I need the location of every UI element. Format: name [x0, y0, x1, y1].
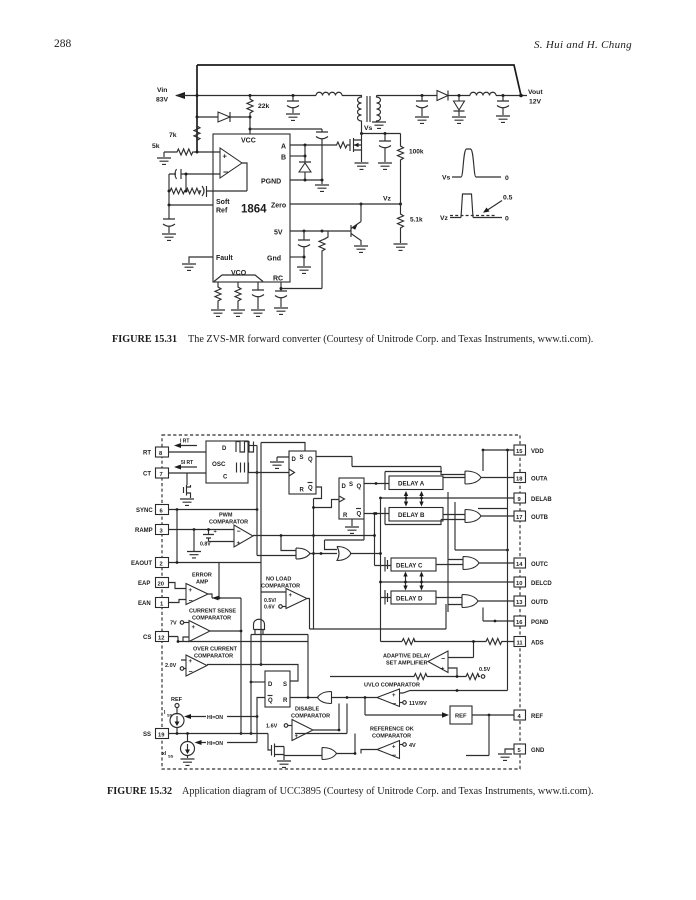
- AND gate mirrored on R row: [318, 692, 332, 704]
- wire op-amp output loop: [242, 163, 247, 191]
- wire HI=ON row 2: [198, 742, 258, 744]
- wire REF input with arrow: [365, 698, 445, 716]
- inductor L1 on input rail: [316, 92, 342, 95]
- svg-text:Fault: Fault: [216, 255, 233, 262]
- svg-text:10: 10: [516, 581, 522, 587]
- wire PGND row to ground: [290, 180, 322, 184]
- wire Vs node row: [362, 133, 401, 135]
- svg-text:D: D: [222, 446, 227, 452]
- inductor L2 output: [470, 92, 496, 95]
- svg-text:DELCD: DELCD: [531, 581, 552, 587]
- transistor Q1 PNP: [351, 204, 361, 245]
- svg-text:0: 0: [505, 175, 509, 182]
- OUTD driver gate: [462, 595, 478, 608]
- svg-text:19: 19: [158, 733, 165, 739]
- wire FF2 ground: [351, 519, 353, 526]
- svg-text:PGND: PGND: [261, 179, 281, 186]
- wire soft ref row: [169, 204, 213, 206]
- wire VDD row: [483, 449, 514, 451]
- pin DELAB box 9: [514, 493, 526, 503]
- svg-text:Q: Q: [357, 512, 362, 518]
- VCO timing network below IC: resistor: [215, 282, 221, 309]
- svg-text:S: S: [349, 482, 353, 488]
- op-amp error amplifier: [220, 148, 242, 178]
- svg-text:+: +: [392, 745, 396, 751]
- current source Iss: [170, 714, 184, 728]
- wire B pin stub: [290, 155, 305, 157]
- capacitor compensation on inverting input: [169, 169, 220, 179]
- wire zero row Vz: [290, 203, 401, 205]
- svg-text:CT: CT: [143, 472, 151, 478]
- delay block B: [389, 508, 443, 522]
- wire gnd pin row: [290, 256, 304, 258]
- pin DELCD box 10: [514, 577, 526, 587]
- wire vertical bus x313: [313, 499, 315, 630]
- svg-text:GND: GND: [531, 748, 545, 754]
- svg-text:Zero: Zero: [271, 203, 286, 210]
- svg-text:−: −: [223, 167, 228, 177]
- svg-text:DISABLE: DISABLE: [295, 707, 319, 713]
- wire FF2 Q to DELAY A: [364, 483, 389, 485]
- svg-text:22k: 22k: [258, 103, 270, 110]
- svg-text:Gnd: Gnd: [267, 256, 281, 263]
- wire EAP to + input: [169, 583, 187, 589]
- svg-text:REF: REF: [455, 714, 467, 720]
- svg-text:17: 17: [516, 515, 522, 521]
- svg-text:ERROR: ERROR: [192, 573, 212, 579]
- transistor CT discharge: [184, 485, 191, 498]
- pin VDD box 15: [514, 445, 526, 455]
- pin SYNC box 6: [156, 505, 169, 515]
- svg-text:AMP: AMP: [196, 580, 209, 586]
- wire 5V row: [290, 230, 351, 232]
- svg-text:D: D: [342, 484, 347, 490]
- flip-flop FF2: [339, 478, 364, 519]
- svg-text:REF: REF: [171, 697, 183, 703]
- svg-text:DELAY A: DELAY A: [398, 481, 425, 488]
- IC 1864 body: [213, 134, 290, 282]
- wire RC to resistor: [281, 252, 322, 289]
- wire DELAB row to pin 9: [381, 497, 515, 499]
- resistor 22k: [247, 96, 253, 135]
- ground at FF1 D input: [277, 457, 289, 461]
- svg-text:OVER CURRENT: OVER CURRENT: [193, 647, 238, 653]
- svg-text:+: +: [392, 693, 396, 699]
- pin SS box 19: [156, 729, 169, 739]
- wire top feedback loop: [197, 65, 521, 152]
- wire OC output to latch S: [207, 665, 298, 682]
- wire vertical mid: [261, 443, 305, 665]
- wire SYNC row: [169, 509, 258, 511]
- svg-text:Q: Q: [308, 457, 313, 463]
- wire big loop left vertical: [251, 635, 308, 734]
- wire PWM output to AND: [253, 536, 375, 551]
- svg-text:13: 13: [516, 600, 523, 606]
- wire vertical bus right: [447, 492, 449, 612]
- svg-text:Vout: Vout: [528, 89, 543, 96]
- svg-text:SYNC: SYNC: [136, 508, 153, 514]
- pin CS box 12: [156, 632, 169, 642]
- svg-text:EAP: EAP: [138, 581, 150, 587]
- wire FF2 clock feed: [314, 500, 340, 508]
- pin OUTC box 14: [514, 558, 526, 568]
- svg-text:RC: RC: [273, 276, 283, 283]
- wire OSC C output to FF1 clock: [248, 472, 289, 474]
- wire REF down to refok row: [466, 715, 489, 756]
- svg-text:Vs: Vs: [364, 125, 373, 132]
- svg-text:A: A: [281, 144, 286, 151]
- wire bottom gate connections: [284, 734, 377, 756]
- wire FF1 R stub: [314, 487, 322, 499]
- wire vertical bus right 2: [455, 502, 508, 550]
- wire EAOUT row: [169, 562, 262, 564]
- svg-text:0.5V: 0.5V: [479, 667, 491, 673]
- svg-text:OUTC: OUTC: [531, 562, 549, 568]
- wire SS row: [169, 729, 269, 734]
- IC boundary dashed box: [162, 435, 520, 769]
- svg-text:COMPARATOR: COMPARATOR: [372, 734, 411, 740]
- svg-text:D: D: [268, 682, 273, 688]
- wire fault to ground: [189, 257, 213, 263]
- resistor: [235, 282, 241, 309]
- svg-text:Vz: Vz: [440, 215, 449, 222]
- ground: [163, 152, 165, 157]
- svg-text:14: 14: [516, 562, 523, 568]
- wire left vertical: [168, 174, 170, 205]
- resistor 100k / 5.1k chain: [398, 134, 404, 244]
- svg-text:VCO: VCO: [231, 270, 247, 277]
- pin RT box 8: [156, 447, 169, 457]
- wire VDD drop to OUTA driver: [482, 450, 484, 471]
- svg-text:0.8V: 0.8V: [200, 542, 211, 548]
- OUTC driver gate: [463, 557, 479, 570]
- transformer T1 secondary: [377, 96, 381, 123]
- svg-text:15: 15: [516, 449, 523, 455]
- wire CS comp output: [210, 630, 241, 632]
- wire latch D input: [251, 681, 265, 683]
- svg-text:+: +: [295, 734, 299, 740]
- svg-text:Application diagram of UCC3895: Application diagram of UCC3895 (Courtesy…: [182, 786, 594, 797]
- current source 2: [181, 742, 195, 756]
- wire AND to OR: [310, 553, 337, 555]
- wire OSC D output: [248, 445, 257, 447]
- svg-text:Vin: Vin: [157, 87, 167, 94]
- pin EAOUT box 2: [156, 558, 169, 568]
- wire + input row 0.5V: [330, 668, 480, 680]
- svg-text:S. Hui and H. Chung: S. Hui and H. Chung: [534, 39, 632, 51]
- svg-text:12V: 12V: [529, 99, 542, 106]
- svg-text:100k: 100k: [409, 149, 424, 156]
- wire RAMP row: [169, 529, 235, 531]
- svg-text:OUTB: OUTB: [531, 515, 549, 521]
- wire latch R row to gate and UVLO: [290, 697, 377, 699]
- svg-text:7V: 7V: [170, 621, 177, 627]
- pin CT box 7: [156, 468, 169, 478]
- svg-text:1.6V: 1.6V: [266, 724, 278, 730]
- svg-text:FIGURE 15.32: FIGURE 15.32: [107, 786, 172, 797]
- svg-text:B: B: [281, 155, 286, 162]
- svg-text:EAN: EAN: [138, 601, 151, 607]
- svg-text:−: −: [237, 529, 241, 536]
- wire row to OR gate: [325, 520, 365, 550]
- wire REF to pin 4: [472, 714, 514, 716]
- wire latch Q out to HI=ON rails: [257, 698, 265, 743]
- svg-text:COMPARATOR: COMPARATOR: [291, 714, 330, 720]
- clock waveform glyph: [236, 442, 254, 453]
- delay block A: [389, 476, 443, 490]
- transformer T1 primary: [358, 96, 362, 134]
- bottom AND gate: [322, 748, 337, 760]
- svg-text:PWM: PWM: [219, 513, 233, 519]
- svg-text:C: C: [223, 475, 228, 481]
- svg-text:−: −: [441, 656, 445, 663]
- AND gate pwm/clock: [296, 548, 310, 559]
- svg-text:+: +: [441, 667, 445, 673]
- svg-text:7k: 7k: [169, 132, 177, 139]
- svg-text:0.5: 0.5: [503, 195, 513, 202]
- wire DELCD row to pin 10: [381, 581, 515, 583]
- capacitor C1 to ground: [287, 96, 299, 114]
- ground: [286, 114, 300, 120]
- svg-text:Vs: Vs: [442, 175, 451, 182]
- svg-text:Vz: Vz: [383, 196, 392, 203]
- wire EAN to - input: [169, 600, 187, 603]
- wire ramp ground drop: [193, 530, 195, 552]
- pin OUTA box 18: [514, 473, 526, 483]
- node Vin arrow: [175, 92, 185, 99]
- wire A-B tie with clamp diode: [299, 145, 311, 180]
- resistor row to ADS: [448, 639, 514, 658]
- svg-text:+: +: [192, 625, 196, 631]
- capacitor on 5V: [298, 231, 310, 266]
- ground at GND pin: [505, 749, 514, 753]
- oscillator block: [206, 441, 248, 483]
- svg-text:VDD: VDD: [531, 449, 544, 455]
- VCO trapezoid: [214, 275, 263, 282]
- wire clock bus vertical: [257, 446, 296, 556]
- svg-text:COMPARATOR: COMPARATOR: [192, 616, 231, 622]
- svg-text:D: D: [292, 457, 297, 463]
- pin PGND box 16: [514, 616, 526, 626]
- svg-text:0.6V: 0.6V: [264, 605, 275, 611]
- svg-text:Ref: Ref: [216, 208, 228, 215]
- svg-text:EAOUT: EAOUT: [131, 561, 152, 567]
- wire main input rail: [176, 95, 362, 97]
- REF block: [450, 706, 472, 724]
- svg-text:HI=ON: HI=ON: [207, 715, 223, 721]
- svg-text:REF: REF: [531, 714, 543, 720]
- svg-text:Q: Q: [268, 698, 273, 704]
- svg-text:12: 12: [158, 636, 164, 642]
- wire long right vertical: [507, 450, 509, 691]
- capacitor snubber: [379, 134, 391, 163]
- svg-text:20: 20: [158, 582, 164, 588]
- wire no-load output row: [307, 599, 446, 630]
- svg-text:−: −: [392, 701, 396, 708]
- transformer core: [367, 96, 370, 122]
- svg-text:ADAPTIVE DELAY: ADAPTIVE DELAY: [383, 654, 431, 660]
- svg-text:4V: 4V: [409, 743, 416, 749]
- svg-text:FIGURE 15.31: FIGURE 15.31: [112, 334, 177, 345]
- pin REF box 4: [514, 710, 526, 720]
- svg-text:288: 288: [54, 38, 72, 50]
- resistor 7k: [194, 117, 200, 152]
- svg-text:83V: 83V: [156, 97, 169, 104]
- wire CT row: [169, 473, 207, 485]
- svg-text:+: +: [237, 541, 241, 547]
- svg-text:+: +: [189, 588, 193, 594]
- capacitor output: [497, 96, 509, 116]
- svg-text:xI: xI: [162, 751, 167, 757]
- svg-text:CS: CS: [143, 635, 151, 641]
- svg-text:18: 18: [516, 477, 523, 483]
- latch box: [265, 671, 290, 707]
- pin RAMP box 3: [156, 525, 169, 535]
- svg-text:ADS: ADS: [531, 641, 544, 647]
- svg-text:DELAB: DELAB: [531, 497, 552, 503]
- wire eaout feedback vertical: [218, 563, 220, 599]
- resistor row adaptive input: [381, 639, 453, 645]
- svg-text:2.0V: 2.0V: [165, 663, 177, 669]
- svg-text:16: 16: [516, 620, 523, 626]
- svg-text:VCC: VCC: [241, 138, 256, 145]
- node junctions input rail: [196, 94, 199, 97]
- svg-text:The ZVS-MR forward converter (: The ZVS-MR forward converter (Courtesy o…: [188, 334, 593, 345]
- capacitor on RC pin: [275, 282, 287, 307]
- OUTA driver gate: [465, 471, 481, 484]
- svg-text:5I RT: 5I RT: [181, 460, 193, 466]
- wire CS pin row: [169, 637, 309, 642]
- wire VCC rail with capacitor: [250, 129, 328, 180]
- svg-text:7: 7: [160, 472, 163, 478]
- svg-text:Q: Q: [308, 486, 313, 492]
- svg-text:SS: SS: [167, 713, 173, 718]
- svg-text:R: R: [300, 488, 305, 494]
- wire secondary output row: [377, 95, 528, 97]
- svg-text:OUTD: OUTD: [531, 600, 549, 606]
- svg-text:PGND: PGND: [531, 620, 549, 626]
- svg-text:COMPARATOR: COMPARATOR: [209, 520, 248, 526]
- svg-text:+: +: [223, 152, 228, 161]
- delay block D: [391, 591, 436, 604]
- svg-text:COMPARATOR: COMPARATOR: [261, 584, 300, 590]
- flip-flop FF1: [289, 451, 316, 494]
- diode D2 rectifier: [437, 91, 448, 101]
- wire error amp output row: [208, 594, 241, 598]
- pin OUTD box 13: [514, 596, 526, 606]
- svg-text:SS: SS: [168, 754, 174, 759]
- capacitor to ground lower left: [163, 205, 175, 233]
- battery 0.8V offset: [203, 530, 214, 542]
- svg-text:−: −: [189, 598, 193, 605]
- svg-text:5.1k: 5.1k: [410, 217, 423, 224]
- MOSFET M1 with gate resistor: [290, 138, 362, 152]
- delay CD set arrows: [406, 573, 422, 589]
- svg-text:−: −: [392, 753, 396, 760]
- svg-text:COMPARATOR: COMPARATOR: [194, 654, 233, 660]
- svg-text:R: R: [343, 513, 348, 519]
- svg-text:Q: Q: [357, 484, 362, 490]
- svg-text:OSC: OSC: [212, 461, 226, 468]
- svg-text:0.5V/: 0.5V/: [264, 598, 277, 604]
- svg-text:CURRENT SENSE: CURRENT SENSE: [189, 609, 236, 615]
- pin EAP box 20: [156, 578, 169, 588]
- svg-text:+: +: [214, 529, 217, 535]
- current arrow 5IRT: [177, 466, 197, 468]
- wire mid vertical bus: [375, 498, 392, 642]
- wire PGND hookup: [483, 608, 514, 622]
- svg-text:SS: SS: [143, 732, 151, 738]
- svg-text:−: −: [189, 669, 193, 676]
- wire HI=ON row 1: [187, 716, 257, 718]
- svg-text:DELAY B: DELAY B: [398, 512, 425, 519]
- diode D1: [197, 112, 250, 122]
- svg-text:5k: 5k: [152, 143, 160, 150]
- resistor on 5V rail: [319, 231, 328, 252]
- svg-text:2: 2: [160, 562, 163, 568]
- wire sync to eaout vertical: [176, 510, 178, 563]
- svg-text:RT: RT: [143, 451, 151, 457]
- pin ADS box 11: [514, 637, 526, 647]
- pull-down MOSFET on SS: [268, 734, 284, 761]
- current arrow IRT: [177, 445, 197, 447]
- svg-text:NO LOAD: NO LOAD: [266, 577, 291, 583]
- wire OR output to bus: [350, 553, 381, 555]
- diode D3 freewheel: [454, 96, 465, 117]
- svg-text:DELAY D: DELAY D: [396, 596, 423, 603]
- svg-text:I: I: [164, 710, 166, 716]
- wire long vertical to SS row: [240, 598, 242, 734]
- wire FF2 Qbar to DELAY B: [364, 513, 389, 515]
- svg-text:I RT: I RT: [180, 439, 189, 445]
- soft start clamp dome: [254, 619, 265, 634]
- svg-text:DELAY C: DELAY C: [396, 563, 423, 570]
- svg-text:+: +: [289, 593, 293, 599]
- svg-text:11V/9V: 11V/9V: [409, 701, 427, 707]
- svg-text:+: +: [189, 659, 193, 665]
- svg-text:1864: 1864: [241, 204, 267, 216]
- svg-text:REFERENCE OK: REFERENCE OK: [370, 727, 414, 733]
- pin OUTB box 17: [514, 511, 526, 521]
- svg-text:0: 0: [505, 216, 509, 223]
- capacitor: [252, 282, 264, 309]
- svg-text:R: R: [283, 698, 288, 704]
- wire UVLO + input row: [400, 691, 508, 694]
- svg-text:UVLO COMPARATOR: UVLO COMPARATOR: [364, 683, 420, 689]
- capacitor after secondary: [416, 96, 428, 117]
- svg-text:Soft: Soft: [216, 199, 230, 206]
- ramp waveform glyph: [237, 463, 249, 473]
- pin EAN box 1: [156, 598, 169, 608]
- svg-text:5V: 5V: [274, 230, 283, 237]
- svg-text:HI=ON: HI=ON: [207, 741, 223, 747]
- wire disable output and inputs: [295, 704, 347, 734]
- svg-text:S: S: [300, 455, 304, 461]
- pin GND box 5: [514, 744, 526, 754]
- compensation network resistors and capacitor: [169, 174, 247, 197]
- svg-text:SET AMPLIFIER: SET AMPLIFIER: [386, 661, 428, 667]
- OR gate: [337, 547, 351, 561]
- delay AB set arrows: [406, 493, 422, 506]
- svg-text:OUTA: OUTA: [531, 477, 548, 483]
- wire RT row: [169, 451, 207, 453]
- svg-text:11: 11: [517, 641, 524, 647]
- wire FF1 Q to delay A bracket: [316, 457, 465, 475]
- svg-text:S: S: [283, 682, 287, 688]
- delay block C: [391, 558, 436, 571]
- svg-text:RAMP: RAMP: [135, 528, 153, 534]
- OUTB driver gate: [465, 510, 481, 523]
